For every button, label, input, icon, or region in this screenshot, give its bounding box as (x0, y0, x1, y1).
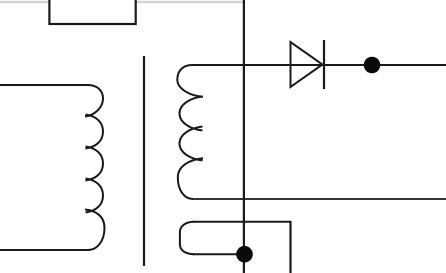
wire (gray top rail) (0, 1, 244, 3)
diode D1 cathode bar (323, 40, 325, 89)
wire (aux right drop) (289, 221, 291, 273)
core line (transformer core) (143, 56, 145, 266)
wire (left primary bottom lead) (0, 249, 89, 251)
wire (secondary bottom, to right edge) (192, 198, 446, 200)
inductor L2 (secondary winding, bumps left) (177, 65, 203, 199)
resistor R (top box, top edge cut off) (49, 0, 135, 24)
wire (aux winding bottom lead) (193, 253, 245, 255)
wire (aux winding top lead) (193, 221, 291, 223)
junction dot (aux/main node) (236, 246, 253, 263)
wire (left primary top lead) (0, 84, 89, 86)
junction dot (diode output node) (364, 57, 381, 74)
inductor L3 (aux winding, single turn C shape) (180, 222, 195, 254)
inductor L1 (primary winding, bumps right) (85, 85, 105, 250)
wire (main vertical) (243, 0, 245, 273)
diode D1 (triangle) (291, 42, 323, 87)
wire (secondary top, to diode anode and beyond) (192, 64, 446, 66)
